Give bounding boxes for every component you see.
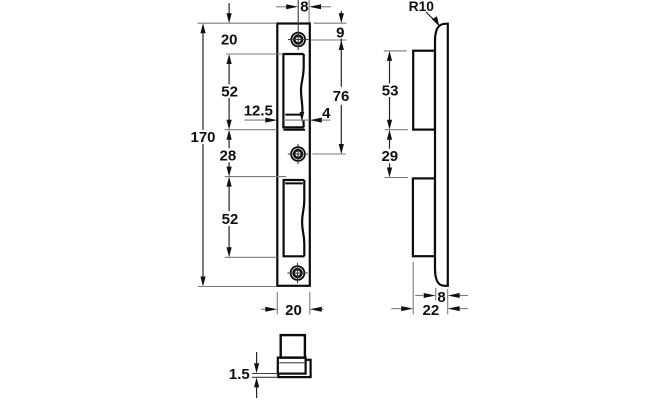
svg-text:29: 29 bbox=[381, 148, 398, 165]
svg-text:12.5: 12.5 bbox=[244, 103, 273, 120]
svg-text:9: 9 bbox=[336, 24, 344, 41]
svg-text:8: 8 bbox=[437, 289, 445, 306]
svg-text:20: 20 bbox=[285, 302, 302, 319]
svg-text:52: 52 bbox=[221, 83, 238, 100]
svg-text:28: 28 bbox=[220, 148, 237, 165]
svg-text:1.5: 1.5 bbox=[229, 366, 250, 383]
svg-text:4: 4 bbox=[322, 105, 331, 122]
svg-text:170: 170 bbox=[190, 129, 215, 146]
svg-text:R10: R10 bbox=[409, 0, 435, 14]
svg-text:52: 52 bbox=[222, 211, 239, 228]
svg-text:76: 76 bbox=[333, 88, 350, 105]
svg-text:8: 8 bbox=[300, 0, 308, 15]
svg-text:53: 53 bbox=[382, 82, 399, 99]
svg-text:20: 20 bbox=[221, 31, 238, 48]
